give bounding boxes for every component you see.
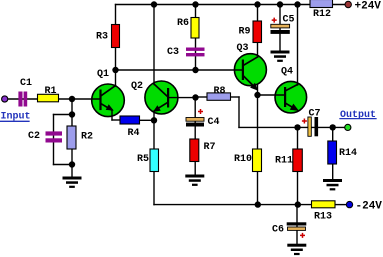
resistor R1 [38,94,59,102]
svg-text:R9: R9 [239,27,251,38]
junction input / Q1 base [69,96,75,102]
transistor Q2 body [145,81,178,114]
resistor R2 [67,126,76,149]
svg-text:C5: C5 [283,15,295,26]
ground (C4/R7 branch) [185,175,204,186]
transistor Q3 body [234,54,266,86]
svg-text:R14: R14 [339,148,357,159]
capacitor C3 [186,48,205,57]
transistor Q2 symbol [153,85,169,113]
junction C2-R2 top [69,111,75,117]
resistor R9 [253,21,262,43]
wire C5 branch vertical [279,5,281,51]
svg-text:Q4: Q4 [281,67,293,78]
svg-text:C6: C6 [272,225,284,236]
junction top rail / R12 [294,1,300,7]
transistor Q4 body [275,81,307,113]
wire feedback bottom [239,126,298,128]
svg-text:R6: R6 [177,18,189,29]
capacitor C5 [271,18,290,34]
wire Q2 base [168,97,196,99]
svg-text:Q1: Q1 [97,69,109,80]
capacitor C6 [287,222,307,238]
junction node A / R3 [112,67,118,73]
wire C4/R7 branch vertical [194,98,196,175]
svg-text:R3: R3 [96,32,108,43]
node Output label [340,110,376,121]
wire R8 right [231,96,240,98]
wire Q4 collector vertical [297,5,299,86]
resistor R6 [191,18,199,39]
capacitor C4 [186,109,204,127]
wire C2 branch vertical [53,115,55,165]
resistor R11 [293,149,303,172]
svg-text:R4: R4 [128,128,140,139]
svg-text:R12: R12 [313,9,331,20]
wire R5 branch vertical [153,120,155,204]
wire Q3 emitter drop [257,85,259,96]
junction R4 / Q2 emitter / R5 [151,117,157,123]
junction top rail / R6 [192,1,198,7]
junction Q3 emitter / Q4 base / R10 [254,92,260,98]
wire input node vertical [71,99,73,176]
junction node A / C3 [192,67,198,73]
transistor Q3 symbol [242,57,258,91]
junction C7 / R14 / output [330,124,336,130]
junction top rail / C5 [277,1,283,7]
transistor Q1 body [92,84,125,117]
svg-text:R1: R1 [45,86,57,97]
ground (C6) [287,244,306,255]
svg-text:+24V: +24V [355,0,382,12]
capacitor C2 [46,131,63,142]
svg-text:R7: R7 [204,142,216,153]
wire Q1 emitter to R4 [112,119,121,121]
wire bottom -24V rail [154,204,312,206]
transistor Q1 symbol [99,86,115,111]
wire Q2 emitter drop [153,111,155,120]
input terminal [2,96,8,102]
resistor R4 [120,116,140,124]
svg-text:-24V: -24V [356,200,383,212]
-24V terminal [346,201,352,207]
wire input row [6,98,100,100]
resistor R10 [253,149,262,172]
wire top +24V rail [116,4,347,6]
junction Q4 emitter / R11 / C7 [294,124,300,130]
svg-text:R11: R11 [275,156,293,167]
resistor R3 [112,25,120,48]
resistor R5 [150,149,159,172]
resistor R8 [207,93,231,100]
junction Q2 base / R8 / C4 [192,94,198,100]
svg-text:R2: R2 [81,132,93,143]
wire output row [298,126,346,128]
transistor Q4 symbol [284,85,299,111]
svg-text:C4: C4 [208,117,220,128]
svg-text:C1: C1 [20,78,32,89]
resistor R12 [310,0,333,8]
wire C6 branch vertical [296,205,298,244]
wire C2 branch top [54,114,73,116]
wire Q2 collector vertical [153,5,155,85]
junction bottom rail / R11 / C6 [295,201,301,207]
resistor R7 [190,139,199,162]
wire R8 left [196,96,208,98]
wire R4 to junction [139,119,151,121]
junction top rail / Q2 collector [151,1,157,7]
svg-text:Q2: Q2 [131,81,143,92]
wire R3 branch vertical [115,5,117,87]
wire R9 to Q3 collector [257,5,259,58]
svg-text:C7: C7 [309,109,321,120]
wire feedback vertical [238,97,240,127]
svg-text:C2: C2 [28,131,40,142]
svg-text:R13: R13 [314,212,332,223]
ground (input network) [63,177,82,188]
wire Q1 emitter drop [111,110,113,120]
ground (R14) [323,179,342,190]
capacitor C1 [18,92,27,107]
svg-text:Q3: Q3 [237,43,249,54]
junction bottom rail / R10 [255,201,261,207]
wire Q4 base [258,94,285,96]
wire R6/C3 branch vertical [195,5,197,71]
junction C2-R2 bottom [69,161,75,167]
output terminal [345,124,351,130]
resistor R13 [312,201,336,208]
wire R14 branch vertical [332,127,334,179]
wire node A horizontal (Q1 collector to Q3 base) [116,69,243,71]
node Input label [1,112,31,123]
ground (C5) [271,51,290,62]
wire C2 branch bottom [54,164,73,166]
svg-text:R8: R8 [214,86,226,97]
+24V terminal [345,1,351,7]
svg-text:C3: C3 [167,47,179,58]
svg-text:Output: Output [340,110,376,121]
resistor R14 [328,141,337,164]
junction top rail / R9 [254,1,260,7]
wire R11 branch vertical [297,127,299,204]
capacitor C7 [302,117,318,136]
svg-text:R5: R5 [137,154,149,165]
wire R13 to -24V terminal [335,204,347,206]
svg-text:R10: R10 [234,154,252,165]
wire R10 branch vertical [257,95,259,205]
